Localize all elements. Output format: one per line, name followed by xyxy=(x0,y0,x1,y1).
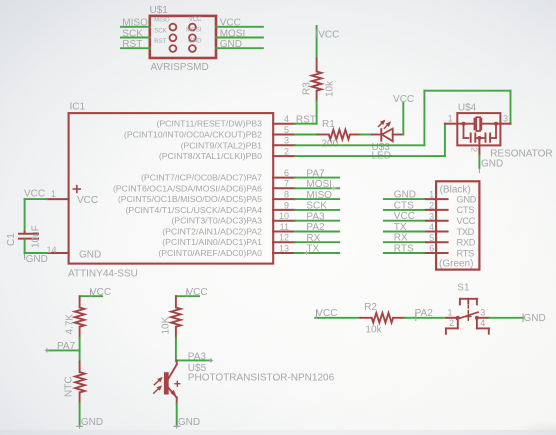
svg-text:RST: RST xyxy=(122,39,142,50)
svg-text:5: 5 xyxy=(429,233,434,243)
svg-text:10k: 10k xyxy=(325,80,336,97)
svg-text:(PCINT6/OC1A/SDA/MOSI/ADC6)PA6: (PCINT6/OC1A/SDA/MOSI/ADC6)PA6 xyxy=(113,183,262,193)
svg-text:2: 2 xyxy=(429,201,434,211)
svg-text:MISO: MISO xyxy=(122,18,148,29)
svg-text:(PCINT2/AIN1/ADC2)PA2: (PCINT2/AIN1/ADC2)PA2 xyxy=(162,227,262,237)
svg-text:VCC: VCC xyxy=(77,195,98,206)
svg-text:PA2: PA2 xyxy=(415,308,434,319)
svg-text:3: 3 xyxy=(503,113,508,123)
svg-text:2: 2 xyxy=(470,147,480,152)
svg-text:MOSI: MOSI xyxy=(220,28,246,39)
svg-text:PA3: PA3 xyxy=(188,351,207,362)
svg-text:(PCINT4/T1/SCL/USCK/ADC4)PA4: (PCINT4/T1/SCL/USCK/ADC4)PA4 xyxy=(126,205,263,215)
svg-text:IC1: IC1 xyxy=(70,102,86,113)
svg-text:PA7: PA7 xyxy=(57,341,76,352)
svg-text:RTS: RTS xyxy=(394,243,414,254)
svg-text:VCC: VCC xyxy=(24,189,45,200)
svg-text:VCC: VCC xyxy=(316,308,337,319)
svg-text:AVRISPSMD: AVRISPSMD xyxy=(151,62,209,73)
svg-text:6: 6 xyxy=(429,244,434,254)
svg-text:GND: GND xyxy=(188,38,202,44)
svg-text:MISO: MISO xyxy=(154,18,170,24)
svg-text:5: 5 xyxy=(284,125,289,135)
svg-text:MOSI: MOSI xyxy=(186,28,202,34)
svg-text:2: 2 xyxy=(284,147,289,157)
svg-text:12: 12 xyxy=(279,233,289,243)
svg-text:(PCINT7/ICP/OC0B/ADC7)PA7: (PCINT7/ICP/OC0B/ADC7)PA7 xyxy=(141,173,262,183)
svg-text:S1: S1 xyxy=(457,283,470,294)
svg-text:GND: GND xyxy=(178,417,200,428)
svg-text:GND: GND xyxy=(26,254,48,265)
svg-text:3: 3 xyxy=(429,211,434,221)
svg-text:RST: RST xyxy=(154,39,166,45)
svg-text:GND: GND xyxy=(79,249,101,260)
svg-text:TX: TX xyxy=(394,222,407,233)
svg-text:C1: C1 xyxy=(6,233,17,246)
svg-text:ATTINY44-SSU: ATTINY44-SSU xyxy=(68,269,138,280)
svg-text:4: 4 xyxy=(284,114,289,124)
svg-text:6: 6 xyxy=(284,168,289,178)
svg-text:PA7: PA7 xyxy=(306,168,325,179)
svg-text:VCC: VCC xyxy=(318,30,339,41)
svg-text:CTS: CTS xyxy=(394,200,414,211)
svg-text:10uF: 10uF xyxy=(31,225,42,248)
svg-text:(PCINT5/OC1B/MISO/DO/ADC5)PA5: (PCINT5/OC1B/MISO/DO/ADC5)PA5 xyxy=(118,194,262,204)
svg-text:VCC: VCC xyxy=(90,287,111,298)
svg-text:SCK: SCK xyxy=(122,28,143,39)
svg-text:4.7K: 4.7K xyxy=(64,314,75,335)
svg-text:11: 11 xyxy=(280,222,289,232)
svg-text:7: 7 xyxy=(284,179,289,189)
svg-text:GND: GND xyxy=(81,417,103,428)
svg-text:4: 4 xyxy=(429,222,434,232)
svg-text:(Green): (Green) xyxy=(439,258,473,269)
svg-text:SCK: SCK xyxy=(306,201,327,212)
svg-text:8: 8 xyxy=(284,190,289,200)
svg-text:4: 4 xyxy=(480,318,485,328)
svg-text:MOSI: MOSI xyxy=(306,179,332,190)
svg-text:10K: 10K xyxy=(161,316,172,334)
svg-text:VCC: VCC xyxy=(394,211,415,222)
svg-text:VCC: VCC xyxy=(220,18,241,29)
svg-text:GND: GND xyxy=(457,194,477,204)
svg-text:U$4: U$4 xyxy=(458,103,477,114)
svg-text:VCC: VCC xyxy=(189,17,202,23)
svg-text:2: 2 xyxy=(449,318,454,328)
svg-text:(PCINT9/XTAL2)PB1: (PCINT9/XTAL2)PB1 xyxy=(181,140,263,150)
svg-text:200: 200 xyxy=(322,139,339,150)
svg-text:RX: RX xyxy=(306,233,320,244)
svg-text:(PCINT11/RESET/DW)PB3: (PCINT11/RESET/DW)PB3 xyxy=(156,119,262,129)
svg-text:PA2: PA2 xyxy=(306,222,325,233)
svg-text:GND: GND xyxy=(481,159,503,170)
svg-text:CTS: CTS xyxy=(457,205,475,215)
svg-text:3: 3 xyxy=(284,136,289,146)
svg-text:(PCINT3/T0/ADC3)PA3: (PCINT3/T0/ADC3)PA3 xyxy=(171,216,262,226)
svg-text:(PCINT0/AREF/ADC0)PA0: (PCINT0/AREF/ADC0)PA0 xyxy=(158,248,262,258)
svg-text:9: 9 xyxy=(284,200,289,210)
svg-text:13: 13 xyxy=(279,243,289,253)
svg-text:RTS: RTS xyxy=(457,248,475,258)
svg-text:VCC: VCC xyxy=(187,287,208,298)
svg-text:VCC: VCC xyxy=(457,216,476,226)
svg-text:GND: GND xyxy=(394,190,416,201)
svg-text:1: 1 xyxy=(429,190,434,200)
svg-text:(PCINT8/XTAL1/CLKI)PB0: (PCINT8/XTAL1/CLKI)PB0 xyxy=(159,151,262,161)
svg-text:(PCINT10/INT0/OC0A/CKOUT)PB2: (PCINT10/INT0/OC0A/CKOUT)PB2 xyxy=(124,130,262,140)
svg-text:1: 1 xyxy=(447,308,452,318)
svg-text:10k: 10k xyxy=(365,325,382,336)
svg-text:(PCINT1/AIN0/ADC1)PA1: (PCINT1/AIN0/ADC1)PA1 xyxy=(162,237,262,247)
svg-text:R3: R3 xyxy=(302,82,313,95)
svg-text:U$1: U$1 xyxy=(150,5,169,16)
svg-text:PHOTOTRANSISTOR-NPN1206: PHOTOTRANSISTOR-NPN1206 xyxy=(188,372,335,383)
svg-text:GND: GND xyxy=(220,39,242,50)
svg-text:PA3: PA3 xyxy=(306,211,325,222)
svg-text:10: 10 xyxy=(279,211,289,221)
svg-text:1: 1 xyxy=(448,113,453,123)
svg-text:R1: R1 xyxy=(322,119,335,130)
svg-text:R2: R2 xyxy=(364,302,377,313)
svg-text:VCC: VCC xyxy=(393,94,414,105)
svg-text:NTC: NTC xyxy=(64,376,75,397)
svg-text:RX: RX xyxy=(394,233,408,244)
svg-text:1: 1 xyxy=(51,189,56,199)
svg-text:MISO: MISO xyxy=(306,190,332,201)
svg-text:3: 3 xyxy=(480,308,485,318)
svg-text:RST: RST xyxy=(296,114,316,125)
svg-text:RXD: RXD xyxy=(457,238,476,248)
svg-text:TXD: TXD xyxy=(457,227,475,237)
svg-text:SCK: SCK xyxy=(154,28,166,34)
svg-text:GND: GND xyxy=(524,313,546,324)
